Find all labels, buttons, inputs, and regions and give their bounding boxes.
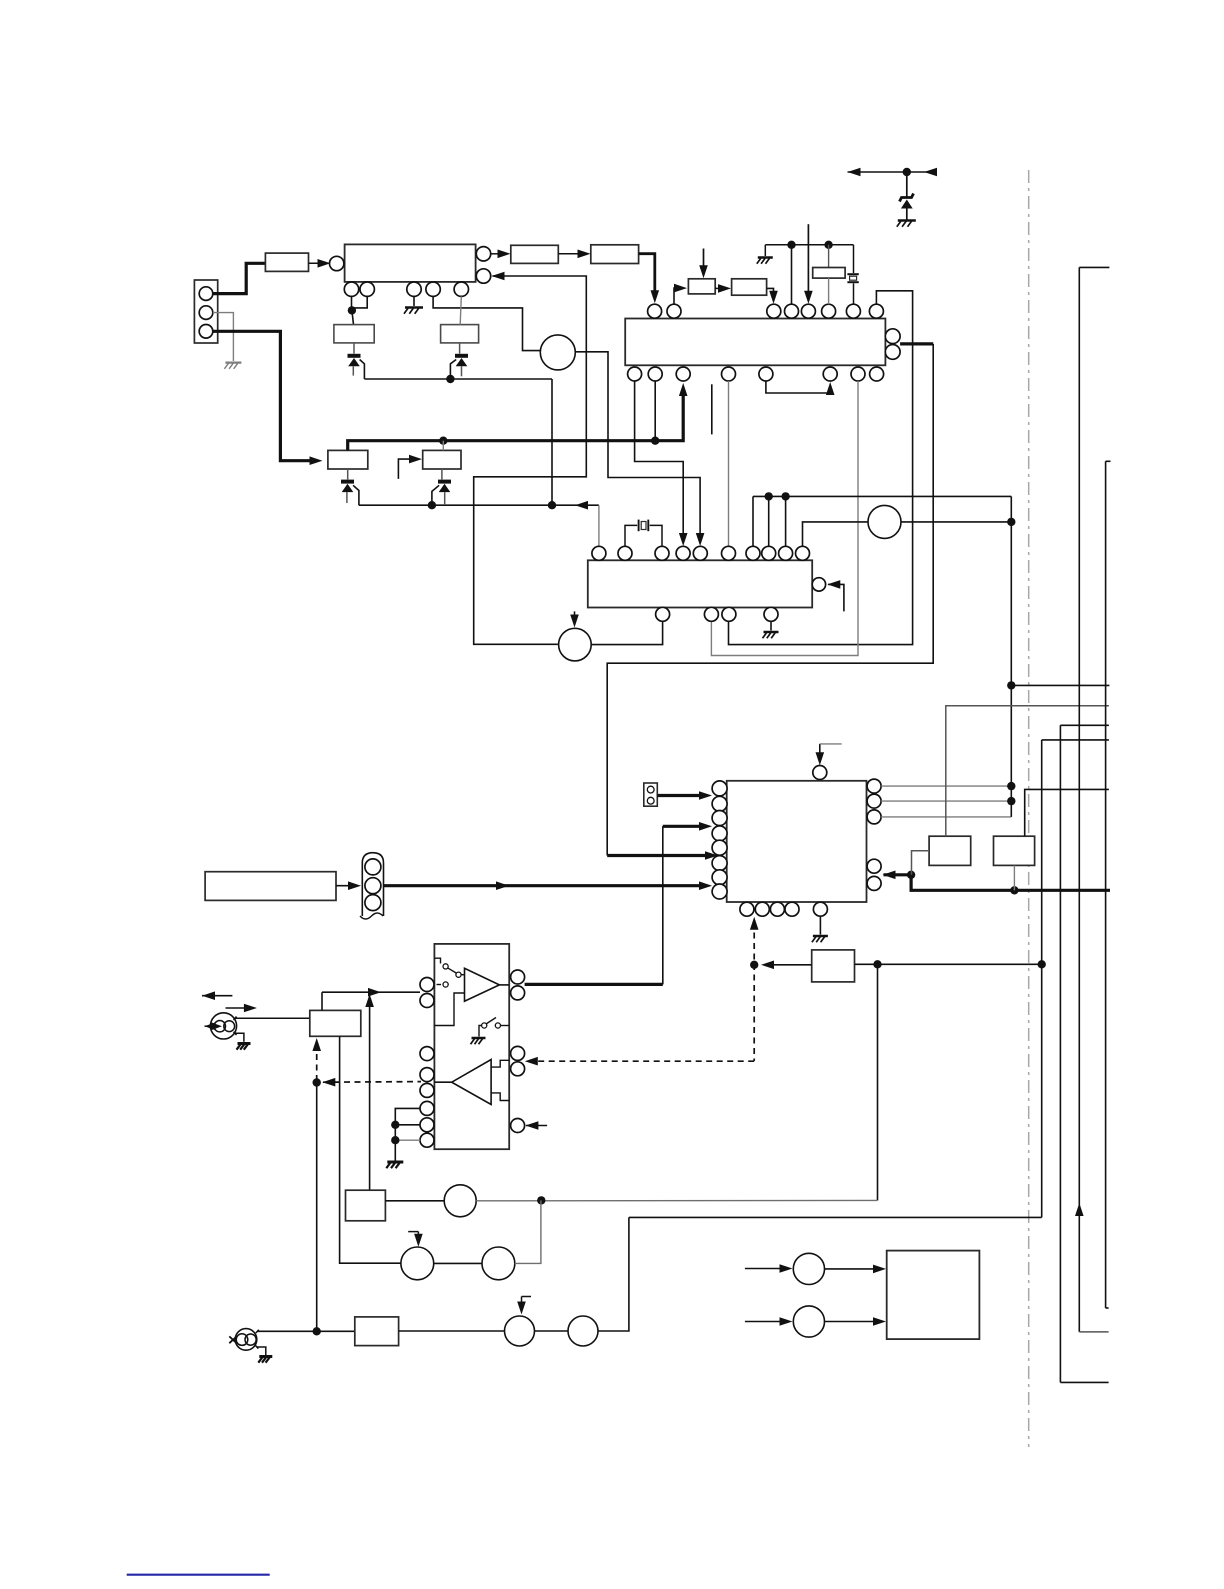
bus stub 267 <box>1079 266 1109 268</box>
switch S2 with ground <box>482 1023 487 1028</box>
wire rail to IC2 pin791 <box>791 245 793 304</box>
wire R8 top to stub <box>946 706 1109 836</box>
wire C5 to C5b <box>434 1262 482 1264</box>
wire vertical W1-W2 link <box>551 379 553 505</box>
wire into IC2 pin808 <box>807 224 809 297</box>
resistor R2a <box>511 245 559 263</box>
wire IC2 pin858 to IC3 pin711 <box>711 381 858 656</box>
wire J1 tip to B5 <box>234 1017 237 1021</box>
IC3 right pin with arrow <box>812 578 825 591</box>
op-amp A2 <box>452 1060 491 1105</box>
IC5 box (op-amp block) <box>434 944 509 1149</box>
wire IC4 right pin2 to bus <box>881 800 1011 802</box>
ground for DZ1 <box>898 219 916 222</box>
resistor R10 <box>812 950 855 982</box>
bus vertical V1060 <box>1059 725 1061 1382</box>
page fold dash-dot line <box>1028 170 1030 1447</box>
circle C8a with arrows <box>745 1268 787 1270</box>
wire R10 right to bus V1041 <box>855 963 1042 965</box>
wire J2 sleeve ground <box>255 1345 258 1348</box>
wire R2a to R2b <box>558 253 585 255</box>
IC3 box <box>588 560 812 607</box>
wire IC2 pin634 to IC3 pin683 <box>635 381 684 539</box>
IC2 top pins <box>648 304 662 318</box>
IC3 top pins <box>592 546 606 560</box>
wire C5b riser to audio bus <box>515 1200 541 1263</box>
wire C6b riser to bus V1041 net <box>598 1217 629 1331</box>
wire riser with up arrow <box>365 994 374 1007</box>
bus stub 740 <box>1042 739 1109 741</box>
oscillator circle C3 <box>868 505 901 538</box>
diode D3 <box>347 469 349 479</box>
IC4 left pins <box>712 781 727 796</box>
ground Vdd rail <box>764 245 766 256</box>
ground IC3 pin771 <box>770 621 772 630</box>
wire R1 to IC1 input pin <box>309 262 326 264</box>
oscillator circle C1 <box>540 335 575 370</box>
op-amp A2 feedback steps <box>491 1060 509 1067</box>
op-amp A1 <box>465 968 500 1001</box>
wire Vdd rail over IC2 <box>765 244 853 246</box>
crystal X1 <box>625 525 637 546</box>
bus stub 1308 <box>1106 1307 1109 1309</box>
resistor R4 <box>423 450 461 469</box>
switch S1a inside IC5 <box>434 958 440 963</box>
connector CN2 <box>644 783 658 806</box>
resistor R5b <box>441 325 479 343</box>
diode D1 <box>353 343 355 354</box>
wire B5 bottom to C5 <box>340 1036 401 1263</box>
wire B7 to C6 <box>399 1330 505 1332</box>
resonator X2 <box>853 245 855 273</box>
wire IC4 right out (thick) to R8/R9 rail <box>883 871 896 880</box>
wire IC5 pins RC network left <box>395 1108 420 1160</box>
box B8 (motor driver) <box>887 1251 980 1340</box>
wire B6 to C4b <box>385 1200 444 1202</box>
IC3 bottom pins <box>656 607 670 621</box>
bus stub 1382 <box>1060 1381 1108 1383</box>
bus stub 461 <box>1106 460 1111 462</box>
wire op-amp A1 lower input <box>434 993 464 1026</box>
resistor R3 <box>328 450 368 469</box>
bus vertical V1011 <box>1010 496 1012 817</box>
wire C6 to C6b <box>535 1330 569 1332</box>
wire IC4 right pin1 to bus <box>881 785 1011 787</box>
wire bus to IC3 pins 753-786 <box>753 495 1011 497</box>
IC1 input pin <box>330 256 344 270</box>
jack J1 (phono) <box>210 1013 236 1039</box>
wire thick rail to IC2 (thick) <box>348 390 684 450</box>
wire R9 top to stub <box>1025 789 1109 836</box>
connector CN1 <box>194 280 217 343</box>
wire stub segment <box>711 384 713 434</box>
bus stub at 685 <box>1011 684 1109 686</box>
wire R6b to IC2 pin774 <box>767 288 774 298</box>
IC2 bottom pins <box>628 367 642 381</box>
wire IC5 right bottom pin stub <box>525 1121 538 1130</box>
switch S1b inside IC5 <box>437 984 442 986</box>
wire C3 to bus <box>901 521 1011 523</box>
footer blue rule <box>127 1574 270 1576</box>
bus stub 1332 <box>1079 1331 1108 1333</box>
wire to IC4 pin826 (thick) <box>525 983 663 986</box>
wire J2 to B7 <box>256 1330 259 1333</box>
resistor R6b <box>732 279 767 295</box>
wire IC2 right pins to IC4 (thick then down) <box>900 342 933 345</box>
wire CN1 pin3 to R3 (thick) <box>213 331 316 460</box>
IC5 right pins <box>511 970 525 984</box>
wire net W2 <box>359 504 599 506</box>
ground IC4 <box>819 916 821 934</box>
wire J1 sleeve to ground <box>234 1032 237 1035</box>
wire IC2 pin655 to rail <box>654 381 656 441</box>
arrow glyph out (left) <box>202 991 215 1000</box>
diode D4 <box>441 469 443 479</box>
wire CN2 to IC4 (thick) <box>657 794 705 797</box>
arrow display box to connector <box>336 885 356 887</box>
wire input to IC5 left (from B5) <box>322 991 420 993</box>
IC5 left pins upper <box>420 978 434 992</box>
wire IC3 pin662 to C2 <box>591 621 662 644</box>
IC4 top pin with bracket arrow <box>813 766 827 780</box>
jack J2 (phono) <box>235 1329 257 1351</box>
circle C6 with bracket arrow <box>505 1316 535 1346</box>
wire C4b to R10 net (audio bus) <box>476 1199 877 1201</box>
wire IC1 out to R2a <box>491 253 506 255</box>
IC1 output pins right <box>476 247 490 261</box>
circle C2 <box>559 628 592 661</box>
ground CN1 <box>225 362 241 364</box>
box B6 <box>346 1190 386 1221</box>
wire B5 top to IC5 input <box>321 992 323 1010</box>
display connector <box>362 853 383 916</box>
IC1 bottom pins <box>344 282 358 296</box>
IC4 box <box>727 781 867 902</box>
wire IC3 pin802 to C3 <box>803 522 869 546</box>
wire CN1 pin2 to ground <box>213 313 234 361</box>
arrow into C2 <box>574 611 576 621</box>
IC4 bottom pins <box>740 902 754 916</box>
circle C5 with bracket arrow <box>401 1247 434 1280</box>
wire CN1 pin1 to R1 <box>213 263 266 293</box>
ground IC1 pin3 <box>413 296 415 306</box>
bus vertical V1079 <box>1078 267 1080 1332</box>
zener diode DZ1 <box>906 172 908 197</box>
box B5 (buffer) <box>310 1010 361 1036</box>
display unit box <box>205 872 336 901</box>
resistor R8 <box>929 836 971 865</box>
bus vertical V1105 <box>1105 461 1107 1308</box>
wire IC2 pin674 to R6a <box>674 288 681 304</box>
IC1 box <box>345 244 476 282</box>
IC2 right pins <box>885 329 900 344</box>
resistor R9 <box>994 836 1035 865</box>
circle C4b <box>444 1185 476 1217</box>
dashed control wire IC5 to IC4 <box>750 917 759 930</box>
wire IC4 right pin3 to bus <box>881 816 1011 818</box>
wire net W1 <box>364 378 552 380</box>
resistor R1 <box>265 253 308 271</box>
dashed wire to IC5 left <box>322 1078 335 1087</box>
circle C5b <box>482 1247 515 1280</box>
wire C1 to IC3 pin <box>575 352 700 539</box>
wire R6a to R6b <box>715 287 725 289</box>
wire R9 bottom to rail <box>1013 865 1015 890</box>
resistor R5a <box>334 325 374 343</box>
wire IC2 pin876 to IC3 pin728 <box>729 291 913 645</box>
wire IC1 pin5 to R5b <box>460 296 461 324</box>
wire IC1 pins to R5a <box>352 296 367 310</box>
dashed wire to B5 bottom <box>312 1038 321 1051</box>
wire R10 branch down to audio net <box>877 964 879 1200</box>
wire display conn to IC4 (thick) <box>384 884 706 887</box>
box B7 <box>355 1317 399 1346</box>
wire IC1 feedback from right <box>492 272 505 281</box>
power rail arrows (top) <box>848 168 861 177</box>
IC5 left pins lower <box>420 1047 434 1061</box>
wire R8 left to rail <box>912 851 930 875</box>
capacitor CE1 <box>828 245 830 268</box>
IC4 right pins <box>867 779 881 793</box>
resistor R2b <box>591 245 639 264</box>
wire R10 left arrow <box>767 964 812 966</box>
wire dashed-node down to jack net <box>316 1083 318 1331</box>
wire arrow into R4 <box>398 459 416 479</box>
IC2 box <box>625 319 885 366</box>
circle C6b <box>568 1316 598 1346</box>
arrow into R6a top <box>703 249 705 273</box>
wire IC1 pin4 to C1 <box>433 296 540 350</box>
wire R2b to IC2 pin (thick) <box>639 254 655 297</box>
resistor R6a <box>688 279 715 294</box>
bus stub 725 <box>1060 724 1109 726</box>
bus vertical V1041 <box>1041 740 1043 1218</box>
wire IC2 pin728 to IC3 pin727 <box>728 381 730 546</box>
circle C8b with arrows <box>745 1321 787 1323</box>
arrow glyph in (right) <box>226 1007 252 1009</box>
wire IC2 pin766 to pin830 <box>766 381 830 393</box>
diode D2 <box>459 343 461 354</box>
